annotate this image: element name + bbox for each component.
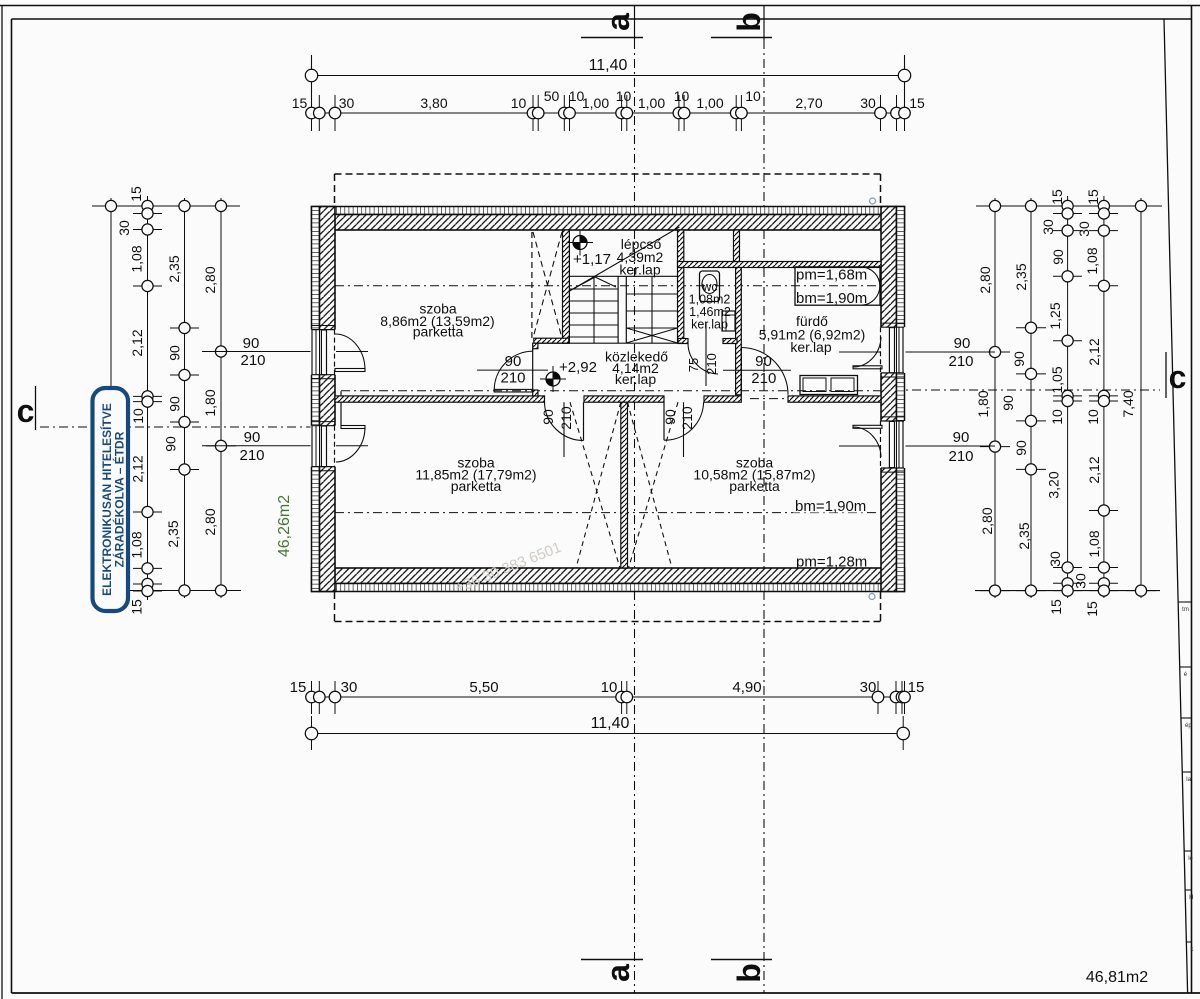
stair left flight steps: [569, 288, 618, 290]
shaft dashed outline and cross: [531, 232, 533, 338]
right door upper frame (furdo door): [902, 327, 904, 373]
svg-text:50: 50: [544, 88, 560, 104]
stair direction line: [569, 227, 679, 291]
outer wall right: main band hatched: [881, 207, 897, 592]
svg-text:10: 10: [601, 679, 618, 696]
svg-text:parketta: parketta: [413, 324, 464, 340]
left window upper frame: [311, 330, 313, 375]
interior horizontal axis upper: [316, 285, 881, 287]
interior horizontal axis middle wall upper: [341, 390, 883, 392]
svg-text:10: 10: [130, 408, 146, 424]
axis a vertical dash-dot: [634, 6, 636, 40]
svg-text:2,12: 2,12: [1086, 456, 1102, 483]
svg-text:3,80: 3,80: [420, 95, 447, 111]
void dashed X left: [570, 402, 620, 568]
svg-text:30: 30: [860, 95, 876, 111]
svg-text:15: 15: [1049, 189, 1065, 205]
axis letter a bottom: [581, 959, 643, 961]
svg-text:210: 210: [704, 353, 719, 375]
axis letter b top: [711, 37, 772, 39]
svg-text:1,08: 1,08: [1084, 247, 1100, 274]
svg-text:1,08: 1,08: [129, 531, 145, 558]
svg-text:46,81m2: 46,81m2: [1086, 969, 1148, 986]
svg-text:75: 75: [686, 358, 701, 372]
right door upper leaf and arc: [853, 366, 882, 369]
bottom overall dimension 11,40: [312, 733, 904, 735]
wc furdo divider wall: [736, 268, 742, 395]
svg-text:15: 15: [909, 95, 925, 111]
axis letter a top: [581, 37, 643, 39]
outer wall bottom: main band hatched: [312, 568, 905, 584]
svg-text:2,70: 2,70: [795, 95, 822, 111]
svg-text:a: a: [600, 964, 636, 982]
outer wall bottom: insulation band: [312, 584, 905, 592]
svg-text:210: 210: [500, 370, 525, 387]
svg-text:210: 210: [948, 448, 973, 465]
stair center stringer: [617, 276, 619, 343]
svg-text:1,08: 1,08: [1086, 530, 1102, 557]
left window dim 90/210 lower: [202, 445, 368, 447]
svg-text:7,40: 7,40: [1120, 390, 1136, 417]
svg-text:pm=1,68m: pm=1,68m: [796, 267, 867, 284]
svg-text:c: c: [17, 393, 35, 429]
axis b vertical dash-dot: [763, 6, 765, 40]
svg-text:210: 210: [751, 370, 776, 387]
axis letter b bottom: [711, 959, 772, 961]
svg-text:1,25: 1,25: [1047, 302, 1063, 329]
wc and bathroom top partition: [678, 262, 882, 268]
left bottom door leaf and arc: [583, 402, 585, 440]
svg-text:11,40: 11,40: [589, 57, 628, 74]
left window upper leaf and arc: [335, 369, 365, 372]
svg-text:15: 15: [1085, 189, 1101, 205]
elevation marker +2,92: [546, 372, 560, 386]
svg-text:10: 10: [745, 88, 761, 104]
svg-text:2,12: 2,12: [130, 455, 146, 482]
stair landing edge: [569, 275, 677, 277]
stair bottom edge: [534, 342, 684, 344]
right bottom door leaf and arc: [663, 402, 665, 440]
interior horizontal axis middle wall lower: [313, 398, 360, 400]
svg-text:1,00: 1,00: [638, 95, 665, 111]
svg-text:30: 30: [860, 679, 877, 696]
svg-text:b: b: [731, 12, 767, 32]
svg-text:30: 30: [341, 679, 358, 696]
interior horizontal axis bm line lower: [335, 512, 881, 514]
left chain C: [184, 198, 186, 598]
left window lower frame: [311, 426, 313, 467]
svg-text:bm=1,90m: bm=1,90m: [795, 498, 866, 515]
svg-text:15: 15: [129, 599, 145, 615]
stair cut cross right flight: [626, 328, 677, 343]
svg-text:46,26m2: 46,26m2: [276, 495, 293, 557]
right window lower leaf and arc: [853, 425, 882, 428]
page frame inner border: [11, 19, 13, 993]
svg-text:30: 30: [1040, 219, 1056, 235]
svg-text:lé: lé: [1188, 856, 1193, 862]
svg-text:90: 90: [755, 353, 772, 370]
svg-text:c: c: [1169, 359, 1187, 395]
svg-text:210: 210: [240, 352, 265, 369]
left window lower jamb caps: [312, 425, 336, 427]
right chain H: [1103, 196, 1105, 598]
left chain B: [147, 196, 149, 600]
svg-text:+1,17: +1,17: [573, 251, 611, 268]
svg-text:1,08: 1,08: [129, 245, 145, 272]
right chain I overall 7,40: [1140, 198, 1142, 598]
wc door labels 75/210 with fraction line: [705, 322, 707, 386]
title block cell dividers: [1178, 601, 1191, 603]
outer wall left: main band hatched: [320, 207, 336, 592]
svg-text:10: 10: [1049, 409, 1065, 425]
elevation marker +1,17: [573, 236, 587, 250]
svg-text:90: 90: [1000, 395, 1016, 411]
svg-text:10: 10: [616, 88, 632, 104]
svg-text:5,50: 5,50: [469, 679, 498, 696]
wc bottom partition segments: [678, 339, 688, 344]
svg-text:2,35: 2,35: [165, 520, 181, 547]
small grey vent circle top: [870, 198, 876, 204]
page frame outer: [1, 5, 3, 999]
outer wall left: insulation band: [312, 207, 320, 592]
svg-text:tm: tm: [1182, 607, 1189, 613]
svg-text:ép: ép: [1185, 723, 1192, 729]
outer wall right: insulation band: [897, 207, 905, 592]
svg-text:90: 90: [243, 335, 260, 352]
electronic stamp box: [93, 388, 129, 611]
room height labels lower: [793, 499, 863, 513]
svg-text:2,80: 2,80: [202, 508, 218, 535]
svg-text:10: 10: [1085, 409, 1101, 425]
svg-text:15: 15: [290, 679, 307, 696]
svg-text:H: H: [1189, 895, 1193, 901]
svg-text:1,05: 1,05: [1049, 366, 1065, 393]
left chains top connector: [92, 205, 240, 207]
svg-text:ker.lap: ker.lap: [615, 371, 656, 387]
svg-text:2,80: 2,80: [977, 266, 993, 293]
wc washbasin: [722, 311, 735, 331]
left chain D: [220, 198, 222, 598]
right chains top connector: [976, 205, 1162, 207]
vanity counter with two basins: [800, 376, 858, 395]
left chains bottom connector: [129, 590, 241, 592]
outer wall top: insulation band: [312, 207, 905, 215]
middle partition wall segments: [335, 396, 545, 402]
svg-text:15: 15: [1084, 601, 1100, 617]
svg-text:15: 15: [292, 95, 308, 111]
right chain E: [994, 198, 996, 598]
top overall dimension 11,40: [312, 75, 905, 77]
stair right flight steps: [626, 293, 677, 295]
svg-text:30: 30: [1076, 221, 1092, 237]
left wall window opening upper: [311, 330, 337, 375]
void guide lines below doors: [563, 402, 565, 457]
left wall window opening lower: [311, 426, 337, 467]
svg-text:2,35: 2,35: [1013, 263, 1029, 290]
stair left wall: [563, 230, 570, 343]
svg-text:30: 30: [339, 95, 355, 111]
svg-text:4,90: 4,90: [732, 679, 761, 696]
left window lower leaf and arc: [341, 426, 365, 429]
bathtub: [795, 267, 880, 305]
svg-text:ZÁRADÉKOLVA – ÉTDR: ZÁRADÉKOLVA – ÉTDR: [112, 431, 127, 567]
svg-text:3,20: 3,20: [1046, 471, 1062, 498]
stair walking line right flight: [651, 277, 653, 343]
svg-text:90: 90: [167, 345, 183, 361]
svg-text:90: 90: [540, 409, 556, 425]
svg-text:2,12: 2,12: [1086, 338, 1102, 365]
roof outline dashed rectangle: [335, 173, 881, 175]
left chain A: [110, 198, 112, 591]
svg-text:parketta: parketta: [729, 478, 780, 494]
right window dim 90/210 lower: [839, 445, 995, 447]
stair right wall: [678, 230, 684, 343]
svg-text:ker.lap: ker.lap: [691, 318, 728, 332]
svg-text:10: 10: [674, 88, 690, 104]
svg-text:90: 90: [1050, 249, 1066, 265]
bottom detail dimension line: [312, 696, 905, 698]
szoba divider wall stubs at hallway left: [533, 343, 538, 349]
svg-text:30: 30: [1073, 573, 1089, 589]
svg-text:la: la: [1186, 777, 1191, 783]
svg-text:1,00: 1,00: [696, 95, 723, 111]
svg-text:2,80: 2,80: [979, 507, 995, 534]
svg-text:2,35: 2,35: [166, 255, 182, 282]
right window dim 90/210 upper: [839, 351, 995, 353]
svg-text:15: 15: [1048, 599, 1064, 615]
svg-text:90: 90: [954, 335, 971, 352]
top szoba door leaf and arc: [494, 389, 533, 392]
right chain G: [1067, 196, 1069, 598]
svg-text:1,80: 1,80: [202, 389, 218, 416]
svg-text:2,80: 2,80: [202, 266, 218, 293]
shaft bottom wall: [534, 338, 569, 343]
svg-text:a: a: [600, 13, 636, 31]
furdo door leaf and arc: [740, 348, 742, 395]
svg-text:90: 90: [244, 429, 261, 446]
headroom boundary corner line: [340, 391, 342, 425]
svg-text:90: 90: [1013, 440, 1029, 456]
svg-text:90: 90: [953, 429, 970, 446]
svg-text:30: 30: [116, 220, 132, 236]
partition above wc divider: [734, 230, 740, 262]
svg-text:11,40: 11,40: [591, 715, 630, 732]
svg-text:b: b: [731, 963, 767, 983]
svg-text:1,00: 1,00: [582, 95, 609, 111]
svg-text:2,12: 2,12: [129, 329, 145, 356]
svg-text:2,35: 2,35: [1016, 522, 1032, 549]
svg-text:90: 90: [167, 396, 183, 412]
right chain F: [1030, 198, 1032, 598]
svg-text:15: 15: [908, 679, 925, 696]
svg-text:1,80: 1,80: [975, 390, 991, 417]
szoba divider wall vertical: [621, 402, 628, 568]
left window dim 90/210 upper: [202, 351, 368, 353]
right door upper jamb caps: [881, 326, 904, 328]
title block slanted edge: [1164, 19, 1188, 993]
small grey vent circle bottom: [869, 594, 875, 600]
svg-text:+2,92: +2,92: [559, 359, 597, 376]
svg-text:210: 210: [679, 406, 695, 430]
left window upper jamb caps: [312, 329, 336, 331]
void dashed X right: [628, 402, 673, 568]
right chains bottom connector: [975, 590, 1160, 592]
svg-text:ker.lap: ker.lap: [790, 339, 831, 355]
svg-text:pm=1,28m: pm=1,28m: [796, 554, 867, 571]
svg-text:90: 90: [1011, 351, 1027, 367]
right wall door opening (furdo): [880, 327, 906, 373]
right window lower jamb caps: [881, 420, 904, 422]
wc door arc: [688, 344, 718, 375]
outer wall top: main band hatched: [312, 215, 905, 231]
right window lower frame: [902, 421, 904, 468]
svg-text:bm=1,90m: bm=1,90m: [796, 290, 867, 307]
top detail dimension line: [312, 112, 905, 114]
svg-text:10: 10: [511, 95, 527, 111]
svg-text:30: 30: [1047, 551, 1063, 567]
right wall window opening lower: [880, 421, 906, 468]
svg-text:parketta: parketta: [451, 478, 502, 494]
svg-text:210: 210: [558, 406, 574, 430]
svg-text:210: 210: [239, 447, 264, 464]
toilet: [700, 271, 720, 302]
svg-text:15: 15: [128, 186, 144, 202]
stair walking line left flight: [593, 277, 595, 343]
svg-text:ker.lap: ker.lap: [619, 262, 660, 278]
svg-text:90: 90: [505, 353, 522, 370]
svg-text:210: 210: [948, 353, 973, 370]
svg-text:90: 90: [163, 436, 179, 452]
